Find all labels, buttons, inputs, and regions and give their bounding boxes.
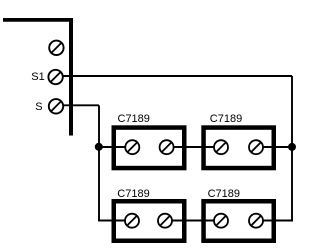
terminal U1-1 (screw) — [125, 140, 139, 154]
terminal U2-2 (screw) — [249, 140, 263, 154]
valve box U2 — [204, 128, 274, 169]
wire S1 to right bus — [56, 75, 292, 77]
wire box U2 to right bus — [256, 146, 292, 148]
terminal U1-2 (screw) — [160, 140, 174, 154]
wire box U4 to right bus — [256, 220, 293, 222]
terminal S (screw) — [49, 99, 63, 113]
terminal U2-1 (screw) — [214, 140, 228, 154]
wire S to left bus — [56, 104, 99, 106]
svg-text:S: S — [35, 101, 42, 113]
junction right bus / row 1 — [288, 143, 296, 151]
valve box U1 — [114, 128, 185, 169]
svg-text:C7189: C7189 — [208, 188, 240, 200]
terminal T1 (unconnected screw) — [49, 41, 63, 55]
svg-text:C7189: C7189 — [210, 113, 242, 125]
terminal U3-2 (screw) — [158, 214, 172, 228]
svg-text:C7189: C7189 — [118, 113, 150, 125]
terminal U4-2 (screw) — [249, 214, 263, 228]
valve box U4 — [204, 201, 274, 241]
terminal U3-1 (screw) — [125, 214, 139, 228]
wire right bus vertical — [291, 76, 293, 222]
wire box U3 to box U4 — [165, 220, 221, 222]
terminal U4-1 (screw) — [214, 214, 228, 228]
wire left bus to box U1 — [97, 146, 132, 148]
valve box U3 — [114, 201, 185, 241]
wire box U1 to box U2 — [167, 146, 222, 148]
wire left bus to box U3 — [98, 220, 132, 222]
svg-text:C7189: C7189 — [117, 188, 149, 200]
terminal S1 (screw) — [48, 70, 62, 84]
controller bracket (thick L outline) — [3, 18, 73, 136]
junction left bus / row 1 — [95, 143, 103, 151]
svg-text:S1: S1 — [31, 71, 44, 83]
wire left bus vertical — [98, 105, 100, 220]
